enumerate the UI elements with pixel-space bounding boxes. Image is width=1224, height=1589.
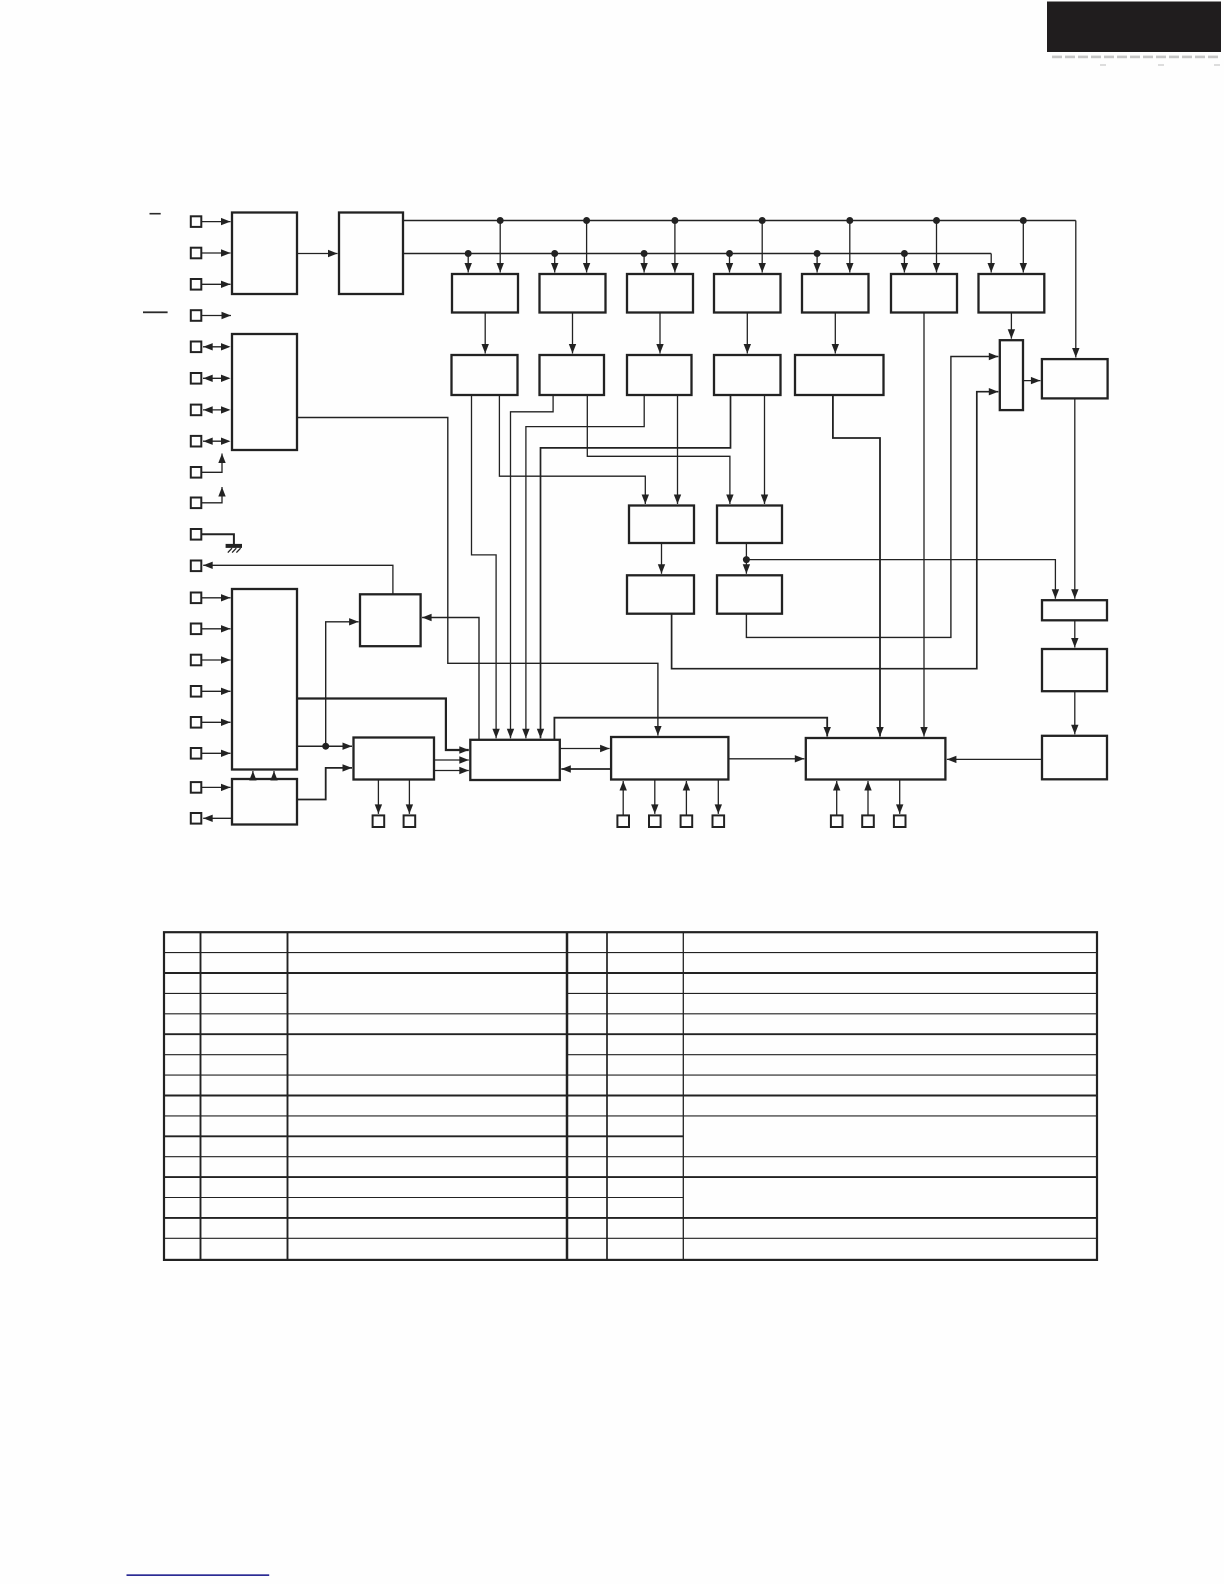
wire square to S up b [864,781,871,815]
wire A2 out2 to I [499,395,649,504]
pin 1 terminal square [191,216,202,227]
square below S 3 [894,815,906,827]
wire R to square down [651,780,658,814]
pin 4 terminal square [191,310,202,321]
block S bottom [806,738,946,780]
bus1 junction dot x586 [583,217,590,224]
bus1 junction dot x674 [671,217,678,224]
wire K out to selector X [672,388,999,669]
block H right [1042,359,1108,398]
block C2 row2 [627,355,692,395]
pin 17 terminal square [191,717,202,728]
arrow U1 to U2 [297,250,338,257]
table row line 2 [164,972,1097,974]
block V right [1042,736,1107,780]
wire L out to selector X [746,353,998,638]
bidirectional arrow pin 8 to U3 [203,438,231,445]
table row line 1 [164,952,1097,954]
block R bottom [611,737,728,780]
wire M top to pin 12 [203,562,393,595]
wire E2 out to S [833,395,884,737]
table column line 4 [606,932,608,1260]
pin 14 terminal square [191,624,202,635]
table column line 2 [287,932,289,1260]
arrow bus1 drop to block top x1023 [1020,221,1027,273]
pin 18 terminal square [191,748,202,759]
block J mid [717,506,782,544]
black header box [1047,2,1221,53]
wire C2 out2 to I [674,395,681,504]
pin 5 terminal square [191,342,202,353]
table column line 5 [682,932,684,1260]
blue footer line [127,1574,270,1576]
arrow block G down to selector X [1008,313,1015,339]
pin 8 terminal square [191,436,202,447]
wire U3 out to R top [297,418,662,736]
square below R 3 [681,815,693,827]
arrow R to S [728,755,804,762]
wire D2 out1 to Q [537,395,731,738]
arrow T to U [1071,620,1078,647]
arrow pin 2 to U1 [201,249,230,256]
bus2 junction dot x644 [641,250,648,257]
block D2 row2 [714,355,781,395]
block T right small [1042,600,1107,620]
faint header text remnants [1052,56,1220,66]
block U4 I/O port B (tall) [232,589,297,770]
block M latch [360,594,421,646]
arrow row1 to row2 x660 [656,313,663,354]
arrow bus1 drop to block top x674 [671,221,678,273]
arrow bus2 end into block G [988,254,995,273]
square below R 1 [617,815,629,827]
arrow pin 14 to U4 [201,625,230,632]
wire O to square 1 down [375,780,382,814]
bidirectional arrow pin 7 to U3 [203,406,231,413]
block A row1 [452,274,518,313]
arrow row1 to row2 x572 [569,313,576,354]
bus2 junction dot x817 [814,250,821,257]
arrow pin 13 to U4 [201,594,230,601]
pin 13 terminal square [191,593,202,604]
junction dot J-L branch [743,556,750,563]
wire J branch to T [746,560,1059,599]
bus2 junction dot x468 [465,250,472,257]
label dash mid-left [143,311,168,313]
arrow pin 3 to U1 [201,281,230,288]
table row line 9 [164,1115,1097,1117]
arrow selector X to H [1023,377,1040,384]
wire Q up to M right [422,614,479,740]
block K mid [627,575,694,613]
arrow I to K [658,543,665,574]
block C row1 [627,274,693,313]
arrow pin 17 to U4 [201,719,230,726]
arrow row1 to row2 x835 [832,313,839,354]
block U right [1042,649,1107,691]
table row line 15 [164,1237,1097,1239]
wire pin 10 stub up [201,487,225,503]
table row line 7 [164,1074,1097,1076]
bus1 junction dot x849 [846,217,853,224]
table outer border [164,932,1097,1260]
square below S 2 [862,815,874,827]
arrow row1 to row2 x485 [482,313,489,354]
square below R 2 [649,815,661,827]
wire pin 9 to U3 bottom [201,454,225,473]
arrow J to L [743,543,750,574]
wire square to R up [620,781,627,815]
wire block F down to block S [920,313,927,737]
arrow O to Q lower [434,767,469,774]
pin 3 terminal square [191,279,202,290]
arrow R to Q [561,765,611,772]
wire H down to T [1071,398,1078,598]
square below O 1 [373,815,385,827]
ground symbol pin 11 [201,534,242,552]
arrow U to V [1071,691,1078,734]
table column line 3 (section divider) [566,932,569,1260]
arrow bus2 drop to block top x904 [901,254,908,273]
block G row1 [979,274,1045,313]
block I mid [629,506,694,544]
table row line 11 [164,1156,1097,1158]
table row line 4 [164,1013,1097,1015]
block B2 row2 [540,355,605,395]
arrow bus1 drop to block top x849 [846,221,853,273]
arrow bus1 drop to block top x586 [583,221,590,273]
arrow bus2 drop to block top x468 [465,254,472,273]
bus 2 lower [403,253,991,255]
wire C2 out1 to Q [522,395,644,738]
block L mid [717,575,782,613]
arrow U5 to U4 right [270,771,277,781]
arrow V to S [947,756,1042,763]
wire B2 out2 to J [587,395,733,504]
pin 16 terminal square [191,686,202,697]
arrow Q to R [560,745,610,752]
block X selector (tall narrow) [1000,340,1023,410]
square below O 2 [404,815,416,827]
table row line 14 [164,1217,1097,1219]
block U3 I/O port A [232,334,297,450]
pin 12 terminal square [191,561,202,572]
arrow U5 to U4 left [249,771,256,781]
wire A2 out1 to Q [472,395,500,738]
pin 11 terminal square [191,529,202,540]
pin 7 terminal square [191,405,202,416]
block Q bottom controller [470,740,560,780]
bus1 junction dot x500 [497,217,504,224]
bus 1 upper [403,220,1076,222]
bidirectional arrow pin 5 to U3 [203,343,231,350]
block O bottom [354,738,435,780]
block E2 row2 [795,355,884,395]
square below S 1 [831,815,843,827]
wire bus1 end down to block H [1072,221,1079,358]
table row line 6 [164,1054,1097,1056]
pin 6 terminal square [191,373,202,384]
square below R 4 [713,815,725,827]
arrow bus1 drop to block top x762 [759,221,766,273]
wire U4 out to O left [297,743,352,750]
pin 10 terminal square [191,498,202,509]
bus1 junction dot x1023 [1020,217,1027,224]
block D row1 [714,274,781,313]
block A2 row2 [452,355,518,395]
block U1 input stage [232,213,297,295]
arrow bus1 drop to block top x500 [497,221,504,273]
table row line 12 [164,1176,1097,1178]
wire O to square 2 down [406,780,413,814]
table row line 3 [164,992,1097,994]
arrow bus1 drop to block top x936 [933,221,940,273]
arrow O to Q upper [434,756,469,763]
block U5 sub port [232,779,297,825]
pin 2 terminal square [191,248,202,259]
wire S to square down [896,780,903,814]
bidirectional arrow pin 6 to U3 [203,375,231,382]
arrow U5 to pin 20 [203,815,232,822]
pin 15 terminal square [191,655,202,666]
wire Q up over to S top [554,718,831,740]
table column line 1 [200,932,202,1260]
pin 20 terminal square [191,813,202,824]
table row line 13 [164,1197,683,1199]
table row line 8 [164,1095,1097,1097]
arrow pin 19 to U5 [201,784,230,791]
pin 19 terminal square [191,782,202,793]
wire square to S up [833,781,840,815]
wire B2 out1 to Q [507,395,553,738]
wire branch up to M left [326,618,359,746]
arrow bus2 drop to block top x817 [813,254,820,273]
junction dot U4-O branch [322,743,329,750]
wire U4 out to Q left [297,699,469,754]
arrow pin 16 to U4 [201,688,230,695]
arrow pin 1 to U1 [201,218,230,225]
bus1 junction dot x762 [759,217,766,224]
block B row1 [540,274,606,313]
bus1 junction dot x936 [933,217,940,224]
block F row1 [891,274,957,313]
arrow pin 4 stub [201,312,231,319]
wire U5 to O left [297,764,352,799]
block U2 clock divider [339,213,403,295]
block E row1 [802,274,869,313]
arrow bus2 drop to block top x644 [640,254,647,273]
pin 9 terminal square [191,467,202,478]
arrow bus2 drop to block top x729 [726,254,733,273]
arrow pin 18 to U4 [201,750,230,757]
wire D2 out2 to J [761,395,768,504]
bus2 junction dot x554 [551,250,558,257]
arrow row1 to row2 x747 [744,313,751,354]
wire square to R up b [683,781,690,815]
arrow bus2 drop to block top x554 [551,254,558,273]
label dash upper-left [150,213,161,215]
bus2 junction dot x729 [726,250,733,257]
table row line 5 [164,1033,1097,1035]
table row line 10 [164,1135,683,1137]
bus2 junction dot x904 [901,250,908,257]
wire R to square down b [715,780,722,814]
arrow pin 15 to U4 [201,656,230,663]
